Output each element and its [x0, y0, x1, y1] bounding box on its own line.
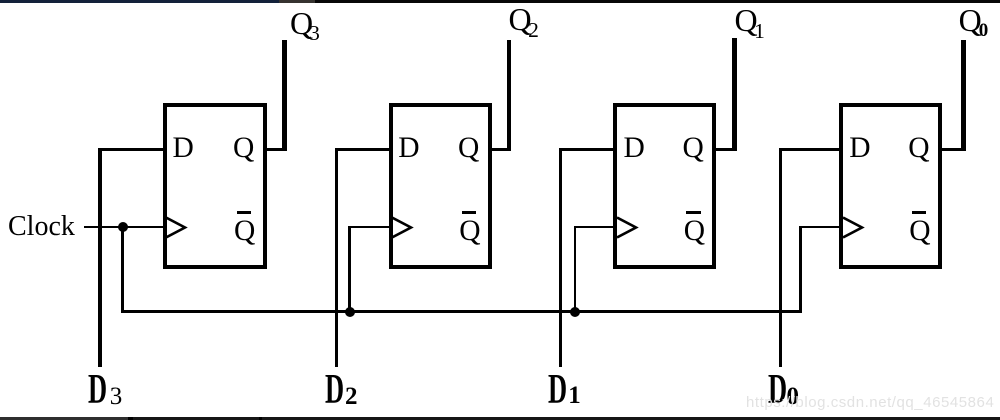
U3 pin label D	[624, 134, 645, 164]
U1 pin label D	[173, 134, 194, 164]
bottom bar notch	[259, 417, 263, 420]
wire D1 stub	[559, 148, 618, 151]
wire Q0 vertical	[961, 40, 966, 151]
wire clock input horizontal	[84, 226, 165, 229]
U2 pin label Q	[458, 134, 479, 164]
wire clock bus horizontal	[121, 310, 801, 313]
bottom bar left segment	[0, 417, 132, 420]
top browser bar gray segment	[279, 0, 315, 3]
junction dot clock/U1	[118, 222, 128, 232]
U4 clock triangle	[843, 216, 867, 240]
input label D1	[548, 369, 578, 411]
wire D0 vertical	[779, 148, 783, 367]
wire Q1 stub	[712, 148, 736, 151]
node label Q3	[290, 7, 320, 45]
U1 clock triangle	[166, 216, 190, 240]
U4 pin label Q	[908, 134, 929, 164]
flip-flop U3 box (D1)	[613, 103, 716, 269]
node label Q1	[735, 4, 765, 42]
bottom bar dark blob	[128, 417, 134, 420]
input label D0	[768, 369, 798, 411]
wire clock tap U2 horizontal	[348, 226, 392, 229]
bottom bar main segment	[132, 417, 1000, 420]
U3 clock triangle	[617, 216, 641, 240]
top browser bar black segment	[315, 0, 1000, 3]
U3 pin label Qbar Q	[684, 217, 705, 247]
wire Q0 stub	[938, 148, 966, 151]
wire D2 stub	[335, 148, 392, 151]
watermark	[746, 395, 994, 410]
wire Q2 vertical	[507, 40, 512, 151]
input label D3	[88, 369, 118, 411]
wire clock tap U2 vertical	[348, 226, 351, 313]
wire Q3 vertical	[282, 40, 287, 151]
wire D1 vertical	[559, 148, 563, 367]
junction dot bus/U2	[345, 307, 355, 317]
wire clock tap U1 vertical	[121, 227, 124, 313]
top browser bar navy segment	[0, 0, 279, 3]
junction dot bus/U3	[570, 307, 580, 317]
wire D2 vertical	[335, 148, 339, 367]
node label Q0	[959, 4, 989, 41]
U3 pin label Q	[683, 134, 704, 164]
node label Q2	[509, 3, 539, 41]
input label Clock	[8, 213, 75, 241]
U1 pin label Qbar Q	[234, 217, 255, 247]
wire D0 stub	[779, 148, 843, 151]
U1 pin label Qbar overbar	[237, 211, 251, 214]
wire D3 vertical	[98, 148, 102, 367]
U2 pin label Qbar overbar	[462, 211, 476, 214]
wire Q3 stub	[263, 148, 287, 151]
flip-flop U4 box (D0)	[839, 103, 942, 269]
flip-flop U2 box (D2)	[389, 103, 493, 269]
wire clock tap U4 horizontal	[799, 226, 843, 229]
U2 clock triangle	[392, 216, 416, 240]
wire Q2 stub	[488, 148, 511, 151]
input label D2	[325, 369, 355, 411]
U2 pin label D	[398, 134, 419, 164]
wire clock tap U3 vertical	[574, 226, 577, 313]
U4 pin label D	[849, 134, 870, 164]
U1 pin label Q	[233, 134, 254, 164]
U4 pin label Qbar overbar	[912, 211, 926, 214]
flip-flop U1 box (D3)	[163, 103, 268, 269]
U2 pin label Qbar Q	[459, 217, 480, 247]
wire D3 stub	[98, 148, 166, 151]
U3 pin label Qbar overbar	[686, 211, 700, 214]
wire clock bus riser U4	[799, 226, 802, 313]
wire clock tap U3 horizontal	[574, 226, 618, 229]
U4 pin label Qbar Q	[909, 217, 930, 247]
wire Q1 vertical	[732, 38, 737, 151]
